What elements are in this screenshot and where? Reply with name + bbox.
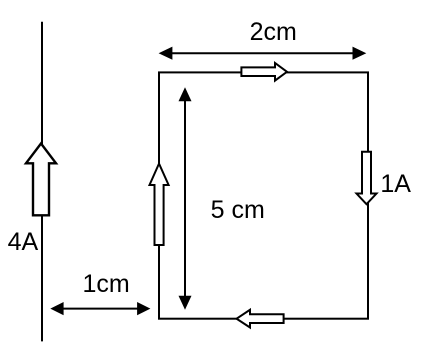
svg-text:5 cm: 5 cm <box>211 196 265 224</box>
svg-text:4A: 4A <box>8 228 39 256</box>
svg-text:1cm: 1cm <box>83 270 130 298</box>
svg-text:1A: 1A <box>380 170 411 198</box>
svg-text:2cm: 2cm <box>250 18 297 46</box>
